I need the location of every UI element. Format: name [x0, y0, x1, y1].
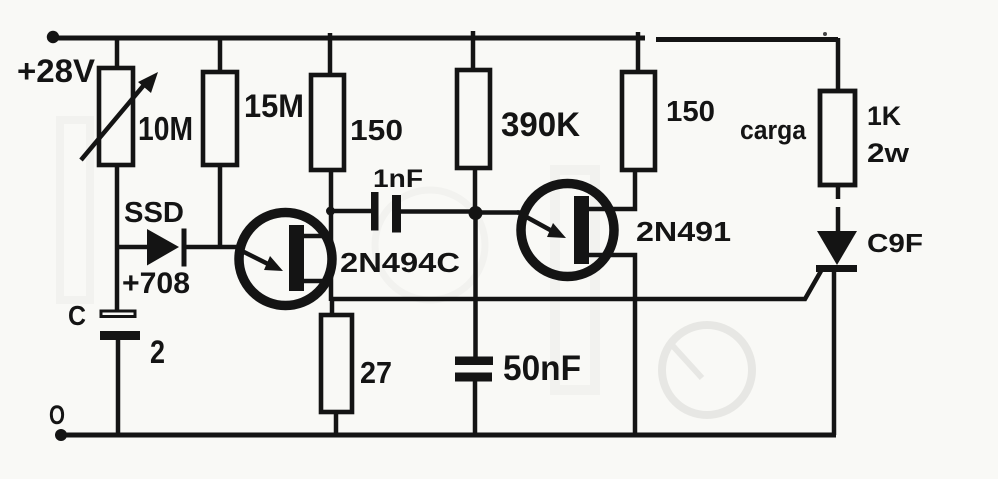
svg-text:+28V: +28V [17, 53, 96, 89]
wire diode anode [117, 245, 150, 250]
svg-text:27: 27 [360, 355, 392, 390]
ghost bleed-through circle (decor) [60, 120, 752, 415]
svg-text:2N494C: 2N494C [340, 247, 460, 278]
svg-text:390K: 390K [501, 106, 580, 144]
resistor R3 150 [311, 75, 344, 170]
svg-text:10M: 10M [138, 110, 193, 147]
svg-text:150: 150 [350, 115, 403, 147]
wire R3 bottom to base2 node [329, 170, 334, 211]
svg-text:C: C [68, 300, 86, 331]
svg-text:1nF: 1nF [373, 165, 423, 193]
wire lead rail to R1 10M [115, 38, 120, 69]
SCR SCR1 C9F [817, 231, 857, 265]
wire Q2 emitter entry [517, 210, 522, 215]
wire R7 bottom to ground rail [334, 412, 339, 435]
resistor R5 150 [622, 72, 655, 170]
svg-text:SSD: SSD [124, 197, 184, 229]
svg-text:2N491: 2N491 [636, 216, 731, 247]
svg-text:2: 2 [150, 334, 165, 370]
resistor R4 390K [457, 70, 490, 168]
node 0V terminal [55, 429, 67, 441]
diode D1 SSD +708 [147, 229, 179, 266]
capacitor C1 (C 2uF) [101, 311, 135, 317]
wire R6 bottom to SCR anode [836, 185, 841, 232]
svg-text:carga: carga [740, 115, 807, 145]
speck above rail (decor) [823, 32, 827, 36]
wire R4 bottom to node E2 [473, 168, 478, 213]
wire R2 bottom to emitter line [218, 165, 223, 248]
svg-text:+708: +708 [122, 267, 190, 300]
node base2 junction [326, 207, 335, 216]
wire lead rail to R2 15M [218, 38, 223, 72]
svg-text:O: O [49, 400, 65, 430]
svg-text:50nF: 50nF [503, 349, 581, 388]
wire R1 bottom to diode junction and C1 [115, 165, 120, 311]
resistor R2 15M [203, 72, 237, 165]
wire top supply rail [53, 38, 838, 40]
svg-text:2w: 2w [867, 138, 910, 168]
capacitor C3 50nF [455, 357, 493, 366]
wire Q1 base column [329, 211, 334, 301]
wire Q2 base1 down to ground rail [589, 255, 635, 435]
svg-text:15M: 15M [244, 88, 304, 124]
wire bottom ground rail [60, 433, 836, 438]
wire SCR cathode to ground rail [832, 272, 837, 435]
resistor R1 10M (variable) [99, 68, 133, 165]
svg-text:C9F: C9F [867, 228, 923, 258]
wire C3 bottom to ground rail [473, 381, 478, 435]
node E2 junction [469, 206, 483, 220]
wire rail corner down to load resistor [836, 38, 841, 91]
wire diode cathode to Q1 emitter [186, 245, 239, 250]
transistor Q1 2N494C (UJT) [239, 213, 332, 306]
wire node E2 to Q2 emitter [475, 210, 519, 215]
wire lead rail to R4 390K [471, 31, 476, 70]
wire node E2 down to C3 [473, 213, 478, 357]
resistor R6 1K 2w (carga) [820, 91, 855, 185]
wire gate line Q1 base1 to SCR gate [331, 271, 821, 299]
wire C1 bottom to ground rail [116, 340, 121, 435]
wire lead rail to R3 150 [328, 33, 333, 75]
transistor Q2 2N491 (UJT) [521, 184, 614, 277]
node +28V terminal [47, 31, 59, 43]
svg-text:1K: 1K [867, 101, 901, 131]
capacitor C2 1nF [331, 209, 371, 214]
svg-text:150: 150 [666, 96, 715, 128]
wire lead rail to R5 150 [636, 32, 641, 72]
wire R5 bottom to Q2 base2 [589, 170, 635, 209]
resistor R7 27 [321, 315, 352, 412]
wire base column to R7 [330, 299, 335, 316]
